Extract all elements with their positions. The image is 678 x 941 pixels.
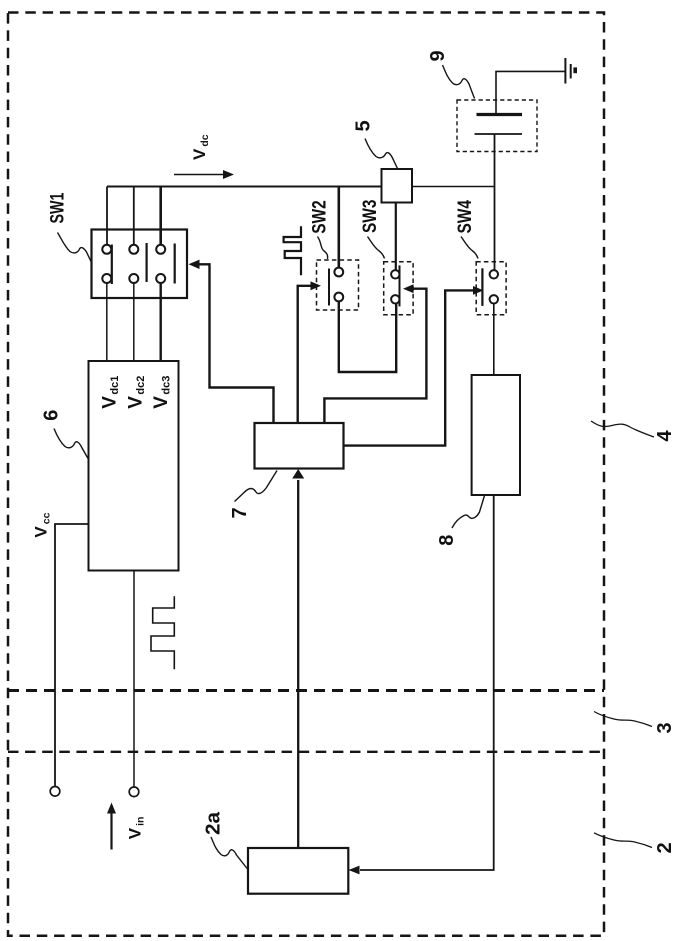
label 5 leader	[365, 139, 398, 169]
SW4 control arrow	[473, 286, 484, 295]
switch SW2 dashed box	[317, 260, 359, 310]
SW1 top stub wires to Vdc bus	[106, 187, 108, 246]
wire Vdc bus	[107, 186, 382, 188]
label 2a leader	[211, 837, 248, 869]
label 8 leader	[452, 496, 485, 529]
svg-text:2a: 2a	[203, 811, 225, 835]
label 7 leader	[235, 471, 278, 502]
block 8	[472, 375, 520, 495]
svg-text:2: 2	[654, 842, 676, 853]
wire block5 to node at capacitor	[412, 186, 495, 188]
svg-text:SW4: SW4	[455, 200, 476, 234]
SW3 control arrow	[403, 284, 414, 293]
wire capacitor bottom to bus / SW4	[494, 134, 496, 270]
svg-text:6: 6	[41, 410, 63, 421]
ground	[564, 58, 566, 84]
unit 3 boundary lower dashed line	[8, 751, 604, 753]
wire SW2 bottom to SW3 bottom	[339, 301, 396, 372]
SW1 leader	[58, 233, 92, 262]
label 6 leader	[54, 429, 88, 459]
wire capacitor to ground	[496, 71, 565, 114]
terminal Vcc	[50, 787, 60, 797]
capacitor 9 bottom plate	[475, 133, 523, 135]
label 9 leader	[443, 65, 475, 99]
SW1 contact circles	[102, 245, 111, 254]
switch SW4 dashed box	[476, 262, 506, 315]
svg-text:4: 4	[654, 430, 676, 442]
label 2 leader	[594, 833, 652, 848]
SW2 control arrow	[311, 281, 322, 290]
SW4 contact circles	[490, 270, 498, 278]
svg-text:8: 8	[436, 535, 458, 546]
wire SW2 top to Vdc bus	[337, 187, 340, 268]
wire SW1 control to block 7	[199, 264, 274, 423]
capacitor 9 dashed box	[457, 100, 537, 152]
block 5	[382, 169, 413, 203]
pulse symbol at block 6 output	[151, 596, 174, 669]
svg-text:7: 7	[229, 507, 251, 518]
Vin arrow	[110, 812, 112, 850]
SW3 contact circles	[391, 270, 399, 278]
svg-text:SW3: SW3	[360, 200, 381, 234]
wire SW3 control to block 7	[324, 289, 426, 423]
switch SW3 dashed box	[384, 262, 413, 315]
svg-text:3: 3	[654, 722, 676, 733]
pulse symbol at SW2	[284, 226, 301, 275]
wire block 6 to input terminal	[133, 571, 135, 787]
SW2 contact bar	[328, 269, 330, 306]
wire SW3 top to block 5	[395, 203, 397, 271]
SW4 contact bar	[481, 268, 483, 306]
label 3 leader	[594, 712, 652, 727]
arrow into block 2a	[349, 866, 360, 875]
arrow into block 7	[292, 469, 304, 479]
SW4 leader	[461, 237, 478, 259]
terminal Vin	[129, 787, 139, 797]
wire Vcc to block 6	[55, 524, 89, 786]
block 2a	[248, 848, 348, 894]
block 7	[255, 423, 344, 469]
switch SW1 box	[92, 230, 188, 299]
wire SW4 bottom to block 8	[493, 304, 495, 375]
SW2 leader	[318, 237, 328, 260]
capacitor 9 top plate	[477, 113, 523, 116]
label 4 leader	[591, 421, 654, 437]
SW1 control arrow	[189, 260, 200, 269]
unit 3 boundary upper dashed line	[8, 689, 604, 692]
wire block 2a to block 7	[297, 480, 299, 848]
wire SW2 control to block 7	[298, 286, 311, 423]
SW1 contact bars	[111, 245, 113, 285]
wire SW4 control to block 7	[344, 290, 474, 445]
block 6	[89, 361, 179, 571]
SW2 contact circles	[334, 268, 343, 277]
Vdc arrow	[174, 174, 224, 176]
svg-text:9: 9	[427, 50, 449, 61]
wire block 8 to block 2a	[360, 495, 494, 870]
SW1 bottom stub wires to block 6	[106, 283, 108, 361]
SW3 leader	[368, 237, 385, 259]
svg-text:5: 5	[353, 120, 375, 131]
SW3 contact bar	[399, 265, 401, 306]
svg-text:SW2: SW2	[310, 200, 331, 234]
svg-text:SW1: SW1	[48, 192, 69, 223]
